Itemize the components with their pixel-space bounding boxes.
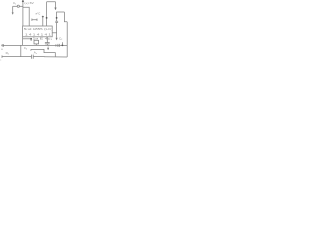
- wire circle to left elbow: [13, 5, 18, 7]
- bus left terminal circle: [2, 45, 3, 46]
- tick on bus: [55, 44, 57, 46]
- stub dot up: [61, 42, 63, 45]
- bus left end tick: [3, 44, 5, 47]
- wire vertical left rail x22.9: [22, 1, 24, 26]
- speaker box top: [56, 11, 64, 13]
- wire below box y38.8: [23, 38, 32, 40]
- wire drop x20.8: [20, 45, 22, 56]
- node dot pin3: [30, 38, 32, 40]
- resistor R bar: [32, 19, 37, 21]
- wire bottom right segment: [44, 56, 67, 58]
- wire box left down: [56, 12, 58, 21]
- node dot x46.6: [46, 17, 48, 19]
- capacitor C3 plates bottom: [32, 55, 34, 59]
- node dot top: [22, 0, 24, 2]
- node dot bus right: [62, 44, 64, 46]
- wire pin x46.6 with top elbow: [47, 2, 56, 8]
- bus wire y45.4: [3, 44, 67, 46]
- capacitor C plates right: [55, 21, 58, 22]
- arrow down at left: [12, 12, 14, 14]
- wire vertical x46.6: [46, 2, 48, 26]
- stub pin3 down: [30, 39, 32, 41]
- wire box right down elbow: [64, 12, 67, 22]
- node dot mid: [42, 16, 44, 18]
- component box small: [34, 40, 39, 44]
- stub small box to bus: [35, 44, 37, 46]
- wire bottom y56.6 left: [2, 56, 31, 58]
- node dot x56.6: [56, 17, 58, 19]
- arrow below bus: [47, 45, 49, 50]
- wire upper jog y49.4: [31, 49, 55, 56]
- wire bottom right of cap: [33, 56, 44, 58]
- wire top elbow y7.2: [23, 7, 29, 26]
- arrow down C2: [56, 38, 58, 40]
- wire cap down to arrow: [56, 23, 58, 38]
- bottom left end tick: [1, 55, 3, 58]
- arrow down right top: [55, 8, 57, 10]
- microphone M1 circle: [17, 5, 19, 7]
- wire IC left down to bus: [22, 37, 24, 46]
- wire pin x42.8: [42, 16, 44, 26]
- pin stub right y32.8: [52, 32, 56, 34]
- wire circle to node vertical: [19, 5, 23, 7]
- capacitor plates in bus: [58, 44, 59, 47]
- wire cap mid vertical: [46, 37, 48, 46]
- capacitor C plates mid x47.3: [45, 43, 50, 44]
- tick down at jog left end: [30, 49, 32, 50]
- svg-text:5nd 1855 (LC): 5nd 1855 (LC): [24, 27, 53, 31]
- svg-text:(+) 6V: (+) 6V: [24, 1, 33, 5]
- svg-text:1 4 1 4 1 4 1: 1 4 1 4 1 4 1: [25, 34, 52, 37]
- IC box U1: [23, 26, 53, 37]
- wire elbow down: [12, 6, 14, 12]
- svg-text:н°C: н°C: [36, 11, 41, 15]
- wire right rail x67.2: [66, 22, 68, 57]
